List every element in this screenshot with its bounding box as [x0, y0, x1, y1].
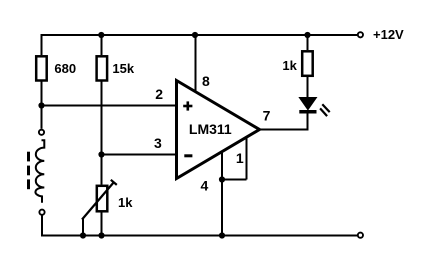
- wire bottom ground rail: [41, 235, 357, 237]
- potentiometer wiper arrow: [82, 180, 117, 220]
- wire coil terminal to bottom rail: [41, 216, 43, 236]
- wire 680 top lead: [41, 34, 43, 55]
- wire pin 8 supply: [195, 34, 197, 94]
- label 15k: [112, 61, 134, 76]
- label LM311: [189, 121, 232, 137]
- wire 1k to LED: [307, 76, 309, 99]
- wire node to pot: [101, 155, 103, 185]
- svg-text:LM311: LM311: [189, 121, 232, 137]
- inductor core dashes: [27, 152, 30, 190]
- terminal coil bottom: [39, 210, 44, 215]
- label pin 4: [201, 178, 209, 194]
- node junction pot bottom rail: [98, 232, 104, 238]
- terminal +12V: [358, 32, 363, 37]
- resistor R1 680: [36, 56, 47, 80]
- label pin 1: [236, 150, 244, 166]
- svg-text:8: 8: [202, 73, 210, 89]
- label pot 1k: [118, 195, 133, 210]
- wire pin 4 lead: [221, 151, 223, 180]
- label +12V: [373, 27, 404, 42]
- svg-text:+12V: +12V: [373, 27, 404, 42]
- svg-text:15k: 15k: [112, 61, 134, 76]
- wire node to terminal: [41, 106, 43, 129]
- label 680: [54, 61, 76, 76]
- LED light marks: [320, 104, 330, 116]
- svg-text:1: 1: [236, 150, 244, 166]
- svg-text:1k: 1k: [118, 195, 133, 210]
- op-amp minus input sign: [184, 154, 192, 157]
- op-amp U1 LM311 triangle: [177, 81, 260, 179]
- node junction pin4 strap: [219, 176, 225, 182]
- svg-text:4: 4: [201, 178, 209, 194]
- inductor L1 coil: [35, 140, 44, 203]
- svg-text:2: 2: [155, 86, 163, 102]
- wire pin 2 input: [42, 105, 177, 107]
- label pin 3: [154, 135, 162, 151]
- svg-text:1k: 1k: [282, 58, 297, 73]
- node junction 15k/pin3/pot: [98, 151, 104, 157]
- node junction 680/pin2: [38, 102, 44, 108]
- label 1k: [282, 58, 297, 73]
- resistor R2 15k: [97, 56, 108, 80]
- wire pin 1 lead: [246, 137, 248, 180]
- op-amp plus input sign: [183, 101, 192, 110]
- svg-text:7: 7: [263, 107, 271, 123]
- resistor R3 1k: [302, 51, 313, 76]
- wire pin 3 input: [102, 154, 177, 156]
- wire 680 bottom lead: [41, 81, 43, 106]
- svg-text:680: 680: [54, 61, 76, 76]
- wire 1k top lead: [307, 34, 309, 50]
- wire pin 7 output: [260, 113, 308, 131]
- wire 15k top lead: [101, 34, 103, 55]
- node junction top rail pin8: [192, 32, 198, 38]
- terminal coil top: [39, 130, 44, 135]
- diode D1 LED: [299, 98, 316, 114]
- terminal ground: [358, 233, 363, 238]
- potentiometer P1 1k body: [97, 186, 108, 212]
- label pin 2: [155, 86, 163, 102]
- wire pot bottom lead: [101, 212, 103, 236]
- wire wiper to bottom rail: [82, 218, 84, 236]
- node junction pin4 bottom rail: [219, 232, 225, 238]
- node junction top rail 15k: [98, 32, 104, 38]
- wire 15k bottom lead: [101, 81, 103, 155]
- wire top supply rail: [42, 34, 358, 36]
- wire pin4 to bottom rail: [221, 180, 223, 236]
- label pin 7: [263, 107, 271, 123]
- svg-text:3: 3: [154, 135, 162, 151]
- node junction wiper bottom rail: [80, 232, 86, 238]
- wire pin1 to pin4 strap: [222, 179, 247, 181]
- label pin 8: [202, 73, 210, 89]
- node junction top rail 1k: [304, 32, 310, 38]
